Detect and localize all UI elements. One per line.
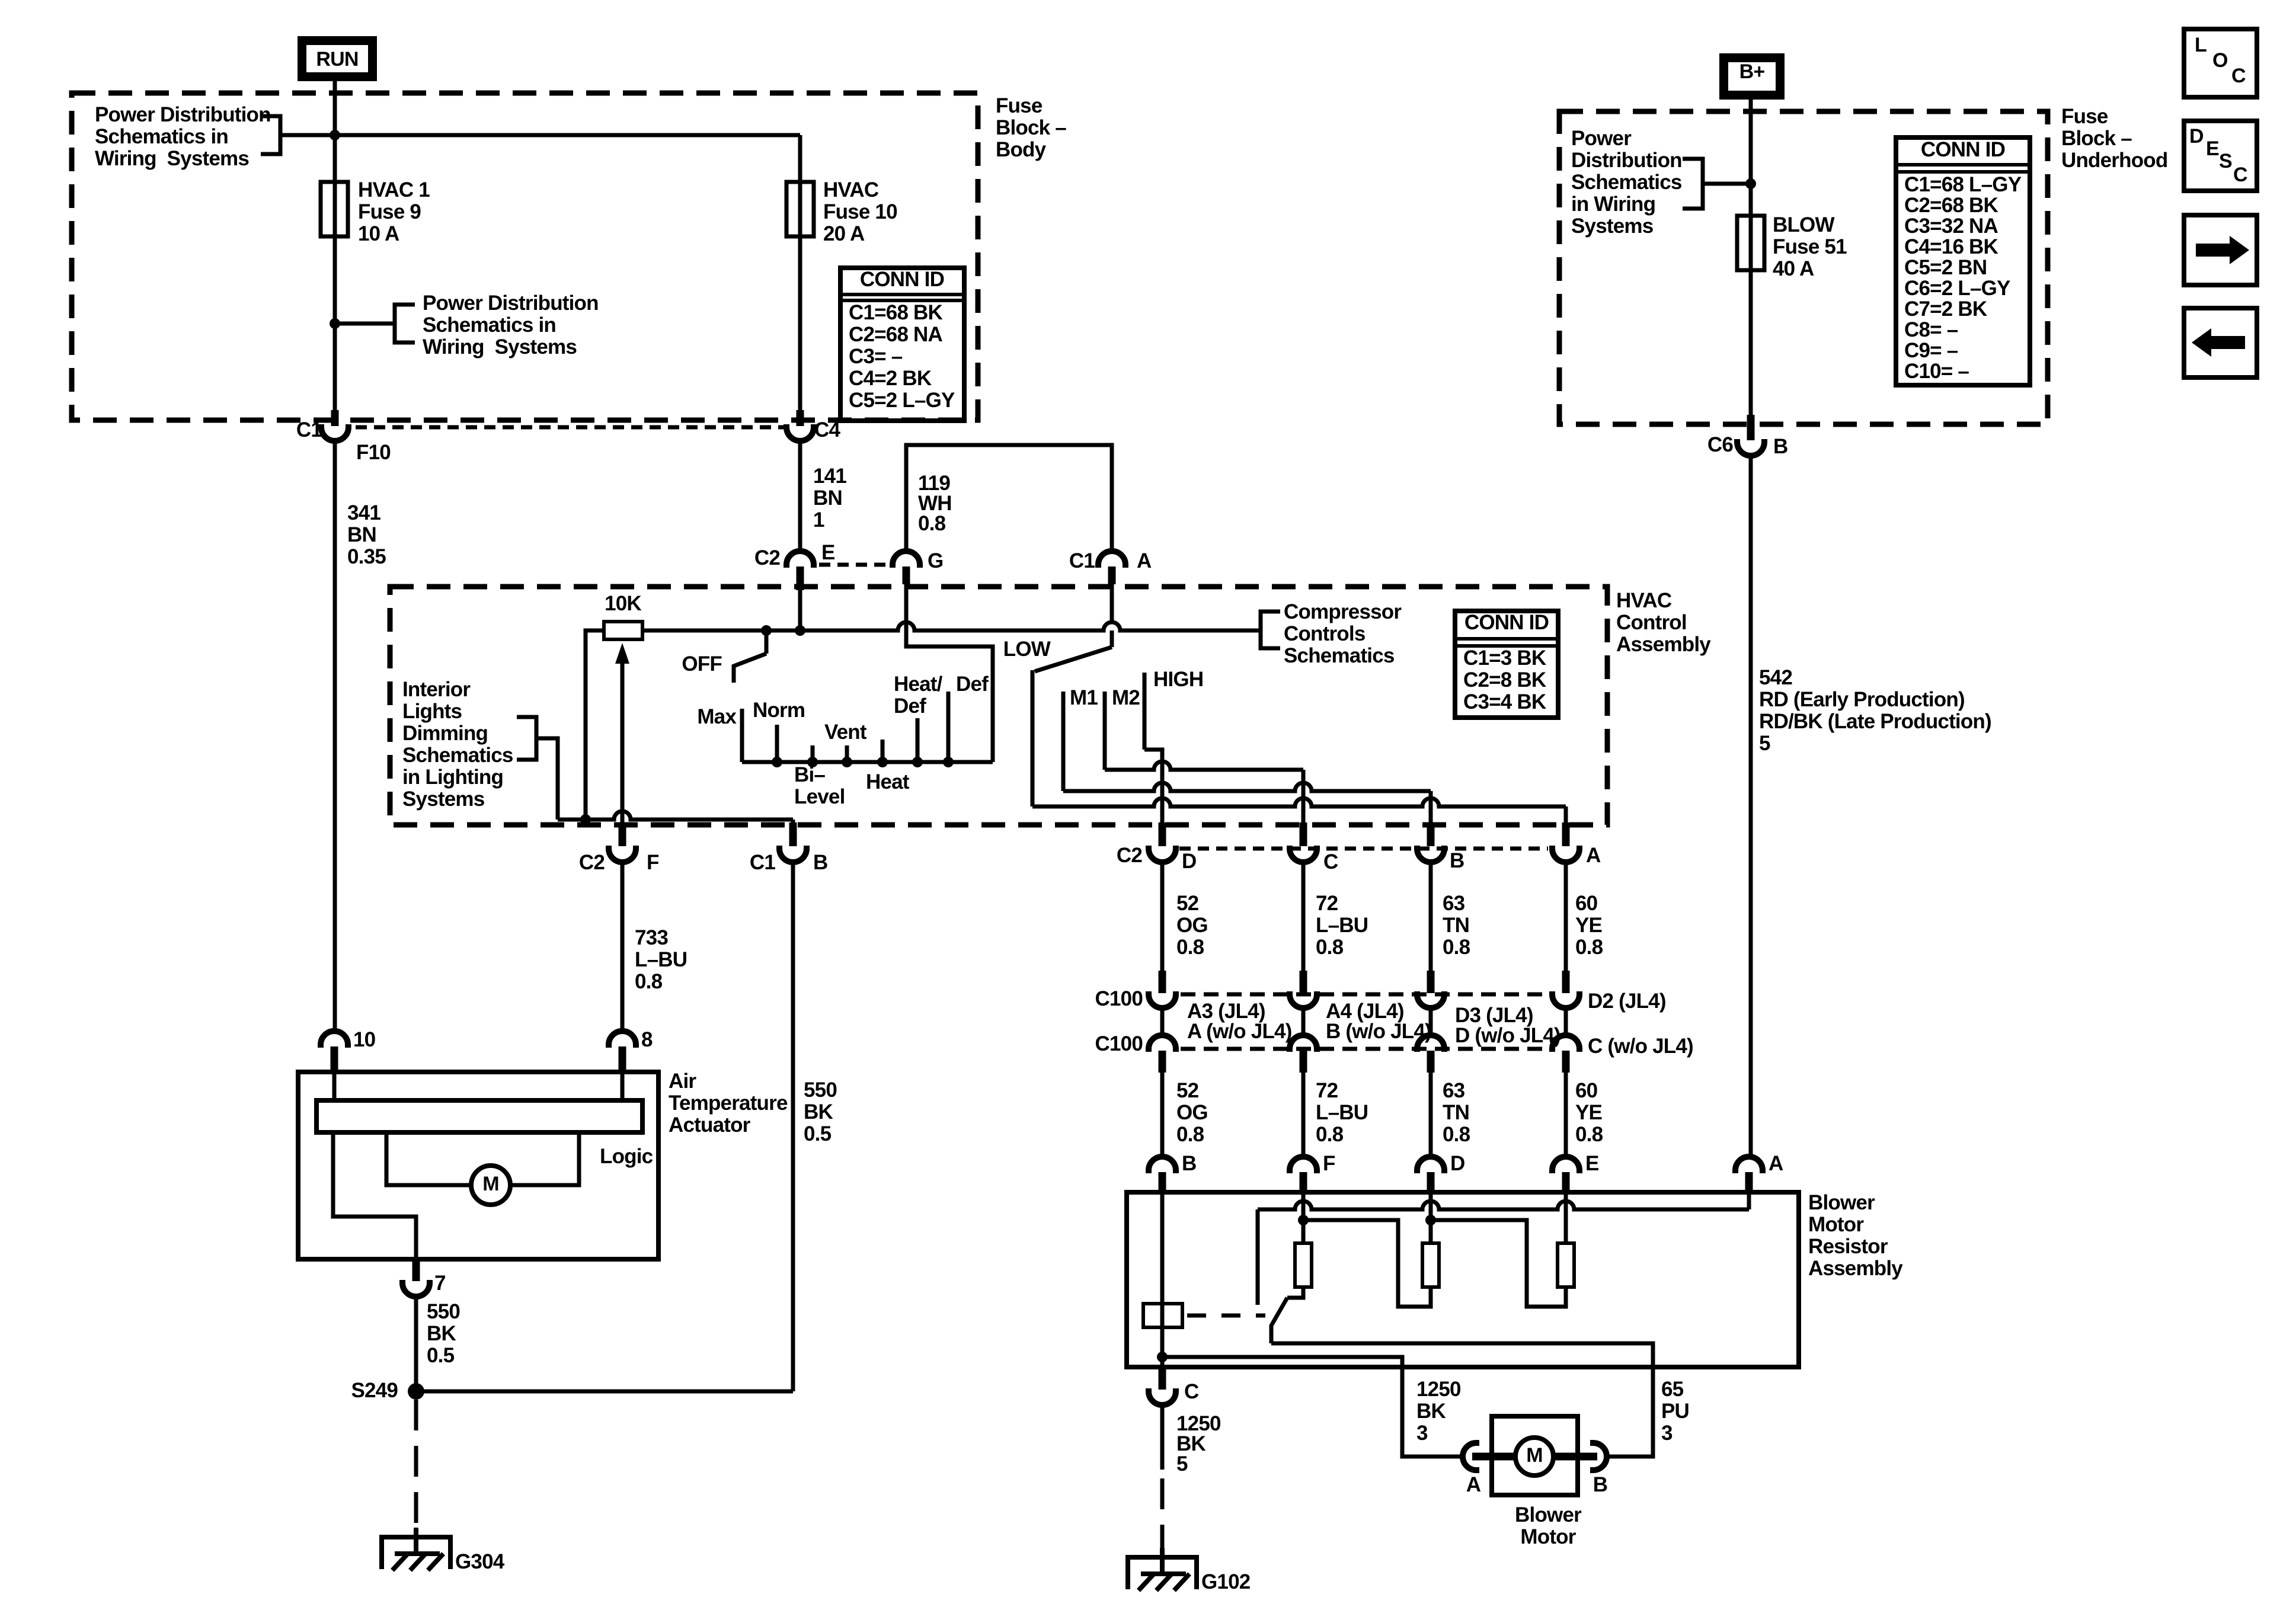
connector G [893,551,920,568]
blower motor resistor assembly box [1127,1192,1799,1367]
wire B+ down [1749,100,1753,216]
svg-text:0.8: 0.8 [1443,936,1470,959]
svg-text:Air: Air [669,1070,696,1093]
wire fuse9 down to C1 [333,236,337,422]
svg-text:M1: M1 [1070,686,1098,709]
svg-text:C4=16 BK: C4=16 BK [1904,235,1998,258]
wire 550 BK 0.5 to S249 [414,1297,418,1391]
connector C100 upper (x=2199) [1300,971,1307,993]
wire bracket to B+ wire [1703,182,1751,186]
svg-text:C1=68 BK: C1=68 BK [849,301,943,324]
svg-text:C6=2 L–GY: C6=2 L–GY [1904,277,2010,300]
svg-text:550: 550 [804,1078,837,1102]
connector C100 upper (x=2414) [1427,971,1435,993]
svg-text:0.8: 0.8 [918,512,946,535]
svg-text:C4: C4 [814,418,840,441]
wire D down to resistor 2 [1429,1184,1433,1243]
svg-text:20 A: 20 A [823,222,865,245]
svg-text:C: C [2233,164,2247,186]
connector pin 8 [609,1031,636,1048]
wire connector interface dashes C1-C4 [356,425,784,430]
wire B through box [1160,1193,1165,1367]
svg-text:B+: B+ [1739,60,1765,83]
svg-text:C10= –: C10= – [1904,360,1969,383]
fuse block underhood dashed box [1559,111,2048,424]
wire track to pin 7 [333,1132,416,1259]
svg-text:G304: G304 [455,1550,505,1573]
svg-text:3: 3 [1416,1422,1428,1445]
connector C100 upper (x=1961) [1159,971,1166,993]
connector C100 lower (x=2414) [1417,1035,1444,1052]
svg-text:C4=2 BK: C4=2 BK [849,367,932,390]
mode position Max [740,709,744,762]
svg-text:RD (Early Production): RD (Early Production) [1759,688,1965,711]
svg-text:Vent: Vent [824,721,867,744]
svg-text:C8= –: C8= – [1904,318,1958,341]
svg-text:Heat: Heat [866,770,910,793]
svg-text:1250: 1250 [1416,1378,1461,1401]
connector pin 10 [321,1031,348,1048]
svg-text:Norm: Norm [753,699,805,722]
fuse HVAC 1 Fuse 9 10A [333,93,337,182]
svg-text:OG: OG [1176,914,1208,937]
svg-text:Def: Def [894,694,926,718]
svg-text:C2=68 BK: C2=68 BK [1904,194,1998,217]
wire M1 [1061,692,1066,791]
svg-text:Dimming: Dimming [402,722,488,745]
wire E down into HVAC box [798,587,802,630]
wire bypass D node to resistor3 bottom [1431,1220,1566,1307]
ground G102 [1128,1548,1197,1590]
mode switch common bar [742,760,993,764]
wire fixed contact from A feed [1256,1209,1260,1305]
svg-text:B: B [813,851,827,874]
svg-text:BN: BN [347,523,376,546]
thermal limiter element [1143,1304,1182,1327]
svg-text:52: 52 [1176,892,1199,915]
svg-text:D (w/o JL4): D (w/o JL4) [1455,1024,1560,1047]
wire 52 OG 0.8 upper [1160,862,1165,971]
wire 72 L-BU 0.8 upper [1302,862,1306,971]
wire C100 link (x=1961) [1160,1008,1165,1035]
svg-text:Schematics in: Schematics in [95,125,228,148]
node junction B wire lower [1157,1352,1168,1362]
wire feeder from G to mode bar [906,622,993,762]
actuator slider track bar [316,1100,642,1132]
wire pin10 into track [332,1072,337,1100]
svg-text:B: B [1182,1152,1196,1175]
svg-text:0.5: 0.5 [804,1122,832,1145]
wire 119 WH jumper loop G to A [906,445,1112,551]
wire 542 RD down right side [1749,456,1753,1157]
HVAC control assembly dashed box [390,587,1607,825]
connector C1 / B [789,822,797,846]
mode position Heat [881,740,885,762]
svg-text:60: 60 [1575,1079,1598,1102]
mode position Bi-Level [811,745,815,762]
wire LOW to connector A (hops) [1032,798,1566,806]
wire fuse10 down to C4 [798,236,802,422]
switch blade (thermal) [1271,1298,1287,1343]
resistor 3 [1558,1243,1574,1287]
svg-text:C1=68 L–GY: C1=68 L–GY [1904,173,2022,196]
connector C2 / D [1159,822,1166,846]
svg-text:0.8: 0.8 [1176,1123,1204,1146]
connector C4 [797,410,804,426]
svg-text:C3=32 NA: C3=32 NA [1904,215,1998,238]
svg-text:BK: BK [427,1322,456,1345]
connector F (resistor assembly) [1290,1157,1317,1173]
svg-text:Control: Control [1616,611,1687,634]
resistor 1 [1295,1243,1312,1287]
svg-text:550: 550 [427,1300,460,1323]
connector C (below resistor box) [1159,1368,1166,1390]
wire dashed S249 to G304 [414,1400,418,1538]
connector E (resistor assembly) [1552,1157,1579,1173]
node RUN (ignition feed flag) [298,36,377,81]
svg-text:L: L [2195,34,2207,56]
svg-text:60: 60 [1575,892,1598,915]
svg-text:A: A [1137,549,1152,572]
fuse HVAC Fuse 10 20A [786,182,814,236]
svg-text:C7=2 BK: C7=2 BK [1904,297,1987,321]
wire LOW contact down [1031,670,1035,806]
wire 733 L-BU 0.8 from F to pin 8 [621,862,625,1031]
svg-text:Wiring Systems: Wiring Systems [423,335,577,359]
wire bypass F node to resistor2 bottom [1303,1220,1431,1307]
svg-text:CONN ID: CONN ID [1921,138,2005,161]
svg-text:0.8: 0.8 [1575,1123,1603,1146]
icon DESC box [2184,121,2257,191]
table CONN ID (underhood) [1896,137,2030,385]
svg-text:C (w/o JL4): C (w/o JL4) [1588,1035,1693,1058]
wire connector interface dashes D-A [1179,847,1548,851]
svg-text:Systems: Systems [402,788,485,811]
svg-text:B (w/o JL4): B (w/o JL4) [1326,1020,1431,1043]
wire 60 YE 0.8 upper [1564,862,1568,971]
svg-text:C2=8 BK: C2=8 BK [1463,668,1546,692]
motor terminal A pin [1472,1453,1515,1461]
svg-text:C3=4 BK: C3=4 BK [1463,690,1546,713]
svg-text:C1: C1 [296,418,322,441]
svg-text:Controls: Controls [1284,622,1366,645]
svg-text:A (w/o JL4): A (w/o JL4) [1187,1020,1292,1043]
wire dashes C100 lower row [1181,1047,1549,1051]
svg-text:Actuator: Actuator [669,1113,751,1137]
switch LOW blade [1110,630,1114,647]
svg-text:F: F [1323,1152,1335,1175]
svg-text:B: B [1450,849,1464,872]
connector C100 lower (x=2642) [1552,1035,1579,1052]
svg-text:F: F [647,851,659,874]
dashed link thermal limiter to blade [1187,1314,1265,1318]
connector B (blower motor) [1590,1443,1607,1470]
wiper arrow from C2 F up to 10K [621,658,625,844]
svg-text:BLOW: BLOW [1773,213,1834,236]
wire 1250 BK 5 [1160,1405,1165,1470]
svg-text:Schematics: Schematics [1284,644,1395,667]
svg-text:8: 8 [641,1028,653,1051]
svg-text:0.8: 0.8 [635,970,663,993]
svg-text:542: 542 [1759,666,1792,689]
icon LOC box [2184,29,2257,97]
wire 141 BN 1 from C4 to C2 E [798,441,802,552]
svg-text:3: 3 [1661,1422,1673,1445]
connector C2 / F [619,822,626,846]
svg-text:L–BU: L–BU [635,948,687,971]
svg-text:TN: TN [1443,914,1469,937]
svg-text:C2: C2 [1117,844,1142,867]
svg-text:C3= –: C3= – [849,345,903,368]
svg-text:HVAC 1: HVAC 1 [358,178,430,201]
svg-text:Max: Max [697,705,737,728]
svg-text:Fuse 10: Fuse 10 [823,200,897,223]
node junction 10K left leg [580,814,591,825]
connector C2 / E [786,551,814,568]
svg-text:C6: C6 [1707,433,1733,456]
wire C100 link (x=2414) [1429,1008,1433,1035]
svg-text:M: M [482,1173,499,1195]
svg-text:733: 733 [635,926,668,949]
svg-text:CONN ID: CONN ID [860,268,944,291]
svg-text:65: 65 [1661,1378,1684,1401]
bracket to power distribution (upper) [261,116,280,154]
svg-text:D: D [2189,125,2204,148]
svg-text:Blower: Blower [1808,1191,1875,1214]
svg-text:E: E [2206,137,2219,160]
svg-text:in Lighting: in Lighting [402,766,503,789]
svg-text:E: E [821,541,835,564]
svg-text:0.8: 0.8 [1316,1123,1344,1146]
svg-text:Distribution: Distribution [1571,149,1682,172]
wire connector interface dashes E-G [819,563,888,567]
svg-text:Fuse: Fuse [2061,105,2108,128]
table CONN ID (fuse block body) [840,268,964,421]
node junction on B+ wire [1745,178,1756,189]
svg-text:63: 63 [1443,1079,1465,1102]
connector B (resistor assembly) [1149,1157,1176,1173]
svg-text:Fuse 51: Fuse 51 [1773,235,1847,258]
svg-text:Wiring Systems: Wiring Systems [95,147,249,170]
connector A (blower motor) [1463,1443,1479,1470]
svg-text:0.8: 0.8 [1176,936,1204,959]
svg-text:C1: C1 [1069,549,1095,572]
wire resistor1 bottom to blade [1287,1287,1303,1298]
svg-text:Heat/: Heat/ [894,673,943,696]
svg-text:S249: S249 [351,1379,398,1402]
svg-text:D: D [1182,850,1196,873]
svg-text:0.8: 0.8 [1316,936,1344,959]
svg-text:B: B [1773,435,1787,458]
svg-text:Motor: Motor [1808,1213,1864,1236]
svg-text:40 A: 40 A [1773,257,1814,280]
svg-text:Logic: Logic [600,1145,653,1168]
resistor 10K potentiometer [604,622,642,639]
wire 63 TN 0.8 upper [1429,862,1433,971]
svg-text:Assembly: Assembly [1808,1257,1903,1280]
svg-text:10 A: 10 A [358,222,399,245]
node junction E wire [795,625,805,636]
wire M2 [1103,692,1107,770]
node B+ (battery feed flag) [1719,53,1785,100]
svg-text:C5=2 BN: C5=2 BN [1904,256,1987,279]
connector C6 / B [1747,415,1755,440]
wire 52 OG 0.8 lower [1160,1073,1165,1157]
svg-text:Body: Body [996,138,1047,161]
svg-text:Interior: Interior [402,678,471,701]
wire A down into HVAC box [1110,584,1114,622]
wire blade output to 65 drop [1271,1343,1653,1457]
svg-text:Schematics: Schematics [402,744,513,767]
wire 10K left leg [586,630,604,820]
wire dashed to G102 [1160,1478,1165,1558]
svg-text:D: D [1450,1152,1464,1175]
svg-text:Power Distribution: Power Distribution [423,292,599,315]
label Compressor Controls Schematics + bracket [1261,612,1280,648]
mode position Norm [775,725,779,762]
svg-text:Level: Level [794,785,845,808]
bracket dimming [517,717,536,760]
svg-text:CONN ID: CONN ID [1464,611,1549,634]
splice S249 [408,1383,424,1400]
wire F down to resistor 1 [1302,1184,1306,1243]
svg-text:F10: F10 [356,441,391,464]
svg-text:HIGH: HIGH [1153,668,1203,691]
mode position Def [946,692,951,762]
svg-text:5: 5 [1759,732,1770,755]
wire 550 BK 0.5 from B down to S249 [791,862,795,1391]
svg-text:72: 72 [1316,1079,1338,1102]
wire lower bus to C1 B (hop over wiper wire) [558,811,793,820]
node junction on fuse9 wire [330,318,340,329]
bracket lower power distribution [395,305,415,343]
svg-text:0.35: 0.35 [347,545,386,568]
switch HIGH wire [1143,673,1147,750]
svg-text:Schematics: Schematics [1571,171,1682,194]
wire S249 to 550 BK return [416,1390,793,1394]
svg-text:C100: C100 [1095,987,1143,1010]
svg-text:S: S [2219,150,2232,172]
svg-text:C: C [2231,65,2246,87]
wire bracket to fuse9 wire [335,322,395,326]
wire C100 link (x=2199) [1302,1008,1306,1035]
svg-text:BK: BK [804,1100,833,1124]
switch OFF [765,630,769,654]
svg-text:LOW: LOW [1003,638,1051,661]
wire 341 BN 0.35 down from C1 [333,441,337,1031]
svg-text:BN: BN [813,486,842,510]
svg-text:Def: Def [956,673,989,696]
svg-text:Power: Power [1571,127,1632,150]
icon right arrow box [2184,215,2257,285]
node junction on RUN wire [330,130,340,140]
svg-text:in Wiring: in Wiring [1571,193,1655,216]
motor terminal B pin [1554,1453,1597,1461]
svg-text:HVAC: HVAC [1616,589,1672,612]
wire B junction to 1250 drop [1162,1357,1463,1457]
svg-text:Fuse: Fuse [996,94,1043,117]
svg-text:C: C [1184,1380,1199,1403]
svg-text:63: 63 [1443,892,1465,915]
svg-text:Assembly: Assembly [1616,633,1711,656]
svg-text:0.8: 0.8 [1443,1123,1470,1146]
svg-text:M2: M2 [1112,686,1140,709]
svg-text:Underhood: Underhood [2061,149,2167,172]
svg-text:Block –: Block – [2061,127,2132,150]
motor M circle [1515,1438,1553,1475]
svg-text:O: O [2212,49,2228,72]
svg-text:Fuse 9: Fuse 9 [358,200,421,223]
svg-text:C2=68 NA: C2=68 NA [849,323,943,346]
svg-text:C2: C2 [754,546,780,569]
svg-text:A: A [1586,844,1601,867]
wire A feed inside box (hops over F D E) [1747,1184,1751,1209]
fuse block body dashed box [72,93,978,420]
bracket underhood power distribution [1683,159,1703,209]
resistor 2 [1422,1243,1439,1287]
wire main feed line inside HVAC box (with hops over G and A wires) [642,622,1261,630]
wire M2 to connector C (hop over HIGH leg) [1105,761,1303,770]
connector D (resistor assembly) [1417,1157,1444,1173]
table CONN ID (HVAC control) [1455,611,1558,718]
node junction OFF stub [761,625,772,636]
wire RUN down into fuse block [333,81,337,95]
wire bracket to RUN feed [280,133,335,137]
svg-text:C1=3 BK: C1=3 BK [1463,646,1546,670]
wire 60 YE 0.8 lower [1564,1073,1568,1157]
motor M circle (actuator) [471,1166,510,1205]
connector A [1562,822,1570,846]
svg-text:C9= –: C9= – [1904,339,1958,362]
svg-text:0.5: 0.5 [427,1344,455,1367]
connector C100 lower (x=1961) [1149,1035,1176,1052]
connector C1 / A [1098,551,1125,568]
svg-text:Block –: Block – [996,116,1066,139]
blower motor box [1492,1416,1578,1495]
svg-text:G: G [928,549,943,572]
air temperature actuator box [298,1072,658,1259]
svg-text:Motor: Motor [1520,1525,1576,1548]
svg-text:52: 52 [1176,1079,1199,1102]
svg-text:Schematics in: Schematics in [423,313,556,337]
svg-text:7: 7 [434,1272,446,1295]
wire pin8 into track [621,1072,625,1100]
connector C100 lower (x=2199) [1290,1035,1317,1052]
wire feed across to fuse 10 [335,133,800,137]
connector B [1427,822,1435,846]
svg-text:1: 1 [813,508,824,532]
fuse BLOW Fuse 51 40A [1737,216,1764,270]
svg-text:E: E [1585,1152,1599,1175]
svg-text:C2: C2 [579,851,605,874]
svg-text:5: 5 [1176,1452,1188,1475]
svg-text:C100: C100 [1095,1032,1143,1055]
svg-text:C: C [1323,850,1338,873]
svg-text:Power Distribution: Power Distribution [95,103,271,126]
svg-text:PU: PU [1661,1400,1689,1423]
svg-text:Lights: Lights [402,700,462,723]
svg-text:L–BU: L–BU [1316,1101,1368,1124]
svg-text:Systems: Systems [1571,215,1654,238]
connector C [1300,822,1307,846]
svg-text:10K: 10K [605,592,641,615]
svg-text:RD/BK (Late Production): RD/BK (Late Production) [1759,710,1991,733]
svg-text:D2 (JL4): D2 (JL4) [1588,990,1666,1013]
connector A (resistor assembly) [1735,1157,1763,1173]
wire bracket to lower bus [536,738,558,820]
svg-text:Compressor: Compressor [1284,600,1402,623]
svg-text:RUN: RUN [316,48,358,71]
